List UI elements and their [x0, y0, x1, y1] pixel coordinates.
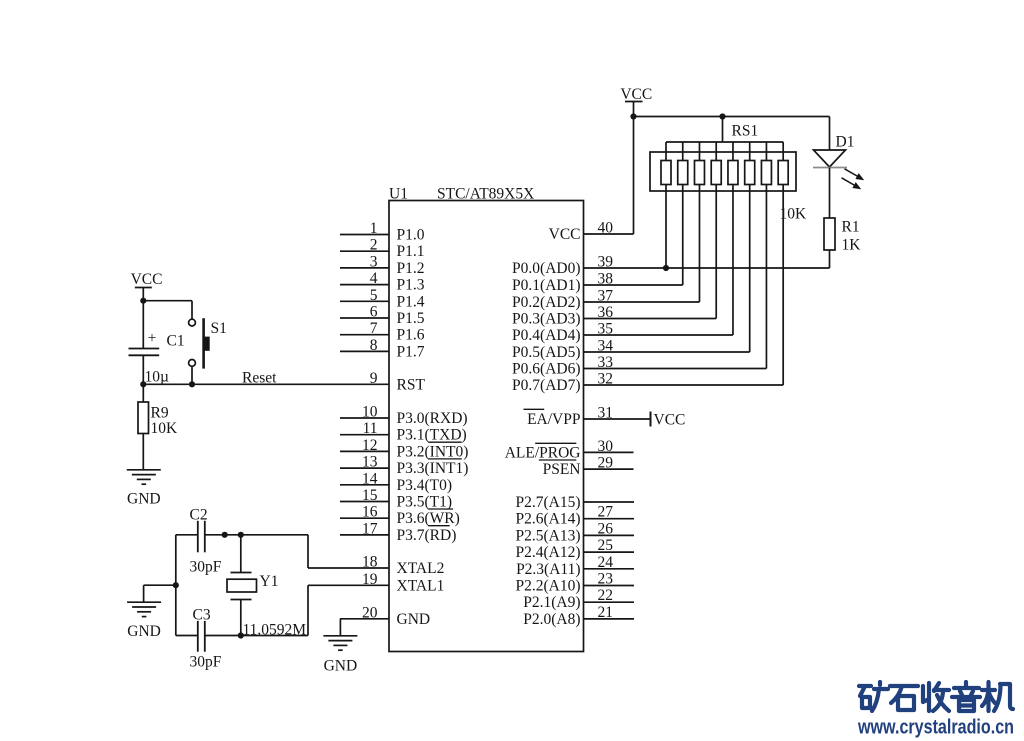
node junction top net A — [222, 532, 228, 538]
RS1 element 6 bottom lead wire — [749, 185, 751, 353]
resistor RS1 element 7 — [761, 161, 771, 185]
svg-text:10K: 10K — [151, 420, 179, 437]
svg-text:P2.6(A14): P2.6(A14) — [515, 511, 580, 528]
wire S1 bottom to reset net — [191, 366, 193, 384]
wire C1 to reset net — [142, 355, 144, 402]
svg-text:P2.4(A12): P2.4(A12) — [515, 544, 580, 561]
svg-text:C3: C3 — [193, 607, 211, 624]
svg-text:P0.6(AD6): P0.6(AD6) — [512, 361, 580, 378]
wire Y1 bottom lead — [240, 600, 242, 636]
svg-text:24: 24 — [598, 554, 614, 571]
svg-text:Y1: Y1 — [260, 573, 279, 590]
svg-text:D1: D1 — [836, 134, 855, 151]
svg-text:30pF: 30pF — [190, 654, 222, 671]
power VCC tick at pin 31 — [650, 412, 652, 427]
RS1 element 3 top lead — [698, 142, 700, 161]
svg-text:30: 30 — [598, 438, 614, 455]
svg-text:P0.1(AD1): P0.1(AD1) — [512, 277, 580, 294]
wire R1 to pin 39 net — [829, 250, 831, 268]
overline bar for P3.6 — [428, 508, 453, 510]
wire Y1 top lead — [240, 535, 242, 573]
svg-text:GND: GND — [397, 611, 431, 628]
overline bar for P3.3 — [428, 458, 462, 460]
resistor pack RS1 outline box — [650, 152, 796, 191]
resistor RS1 element 8 — [778, 161, 788, 185]
logo Chinese characters (kuang shi shou yin ji) — [859, 682, 1013, 711]
svg-text:18: 18 — [362, 554, 378, 571]
wire pin 20 vertical drop — [339, 619, 341, 636]
wire pin 9 RST / Reset net — [143, 383, 389, 385]
resistor R9 body — [138, 402, 149, 434]
wire pin 4 — [340, 284, 389, 286]
svg-text:P2.7(A15): P2.7(A15) — [515, 494, 580, 511]
ground symbol at pin 20 — [323, 635, 357, 637]
wire crystal bottom net — [176, 635, 198, 637]
wire pin 16 — [340, 517, 389, 519]
RS1 element 2 top lead — [682, 142, 684, 161]
svg-text:11.0592M: 11.0592M — [243, 622, 307, 639]
node junction VCC / RS1 common — [719, 113, 725, 119]
svg-text:VCC: VCC — [549, 226, 581, 243]
ground symbol below R9 — [127, 469, 161, 471]
node junction crystal gnd branch — [173, 582, 179, 588]
svg-text:P0.5(AD5): P0.5(AD5) — [512, 344, 580, 361]
switch S1 top contact — [189, 319, 196, 326]
svg-text:39: 39 — [598, 254, 614, 271]
wire pin 14 — [340, 484, 389, 486]
wire pin 15 — [340, 501, 389, 503]
svg-text:VCC: VCC — [620, 86, 652, 103]
svg-text:P0.7(AD7): P0.7(AD7) — [512, 377, 580, 394]
node junction pin39 / RS1 leg 1 — [663, 265, 669, 271]
LED D1 cathode bar — [813, 167, 847, 169]
svg-text:36: 36 — [598, 304, 614, 321]
wire pin 37 — [584, 301, 700, 303]
wire pin 39 — [584, 267, 830, 269]
wire to XTAL1 pin 19 — [307, 585, 309, 635]
svg-text:P3.1(TXD): P3.1(TXD) — [397, 427, 467, 444]
svg-text:P3.7(RD): P3.7(RD) — [397, 527, 457, 544]
LED D1 triangle — [814, 150, 846, 167]
wire pin 40 vertical to VCC rail — [633, 117, 635, 235]
svg-text:3: 3 — [370, 253, 378, 270]
crystal Y1 body — [227, 579, 257, 592]
wire crystal left vertical — [175, 535, 177, 636]
svg-text:P2.0(A8): P2.0(A8) — [523, 611, 580, 628]
wire crystal to ground — [144, 584, 176, 586]
overline bar for P3.2 — [428, 441, 462, 443]
svg-text:www.crystalradio.cn: www.crystalradio.cn — [857, 716, 1014, 739]
wire pin 7 — [340, 334, 389, 336]
svg-text:1K: 1K — [842, 237, 862, 254]
svg-text:P0.2(AD2): P0.2(AD2) — [512, 294, 580, 311]
svg-text:P3.6(WR): P3.6(WR) — [397, 510, 460, 527]
svg-text:C1: C1 — [167, 333, 185, 350]
switch S1 button — [204, 337, 210, 351]
svg-text:11: 11 — [363, 420, 378, 437]
svg-text:20: 20 — [362, 604, 378, 621]
svg-text:P3.4(T0): P3.4(T0) — [397, 477, 453, 494]
resistor R1 body — [824, 218, 835, 250]
svg-text:P2.3(A11): P2.3(A11) — [516, 561, 580, 578]
wire pin 34 — [584, 351, 750, 353]
wire pin 36 — [584, 318, 717, 320]
svg-text:33: 33 — [598, 354, 614, 371]
resistor RS1 element 6 — [745, 161, 755, 185]
svg-text:23: 23 — [598, 571, 614, 588]
svg-text:P1.7: P1.7 — [397, 343, 425, 360]
svg-text:RST: RST — [397, 376, 426, 393]
wire pin P2.2 — [584, 585, 635, 587]
resistor RS1 element 5 — [728, 161, 738, 185]
capacitor C2 left plate — [197, 521, 199, 553]
wire crystal top net — [176, 534, 198, 536]
svg-text:25: 25 — [598, 537, 614, 554]
node junction VCC / pin40 — [630, 113, 636, 119]
node junction Y1 top — [238, 532, 244, 538]
svg-text:32: 32 — [598, 371, 614, 388]
svg-text:4: 4 — [370, 270, 378, 287]
wire VCC rail horizontal — [633, 102, 635, 117]
svg-text:P3.5(T1): P3.5(T1) — [397, 494, 453, 511]
svg-text:5: 5 — [370, 287, 378, 304]
wire pin 12 — [340, 450, 389, 452]
wire pin P2.5 — [584, 534, 635, 536]
svg-text:12: 12 — [362, 437, 378, 454]
capacitor C3 right plate — [204, 621, 206, 652]
svg-text:GND: GND — [324, 657, 358, 674]
svg-text:P2.1(A9): P2.1(A9) — [523, 594, 580, 611]
RS1 element 7 bottom lead wire — [765, 185, 767, 369]
svg-text:S1: S1 — [211, 320, 227, 337]
RS1 element 7 top lead — [765, 142, 767, 161]
RS1 element 4 bottom lead wire — [715, 185, 717, 319]
svg-text:7: 7 — [370, 320, 378, 337]
wire pin 8 — [340, 350, 389, 352]
RS1 element 8 bottom lead wire — [782, 185, 784, 386]
wire pin 17 — [340, 534, 389, 536]
wire pin P2.7 — [584, 501, 635, 503]
wire to XTAL2 pin 18 — [307, 535, 309, 568]
wire pin 20 — [340, 618, 389, 620]
svg-text:P3.2(INT0): P3.2(INT0) — [397, 443, 469, 460]
wire pin 33 — [584, 368, 767, 370]
svg-text:2: 2 — [370, 237, 378, 254]
svg-text:31: 31 — [598, 405, 614, 422]
wire pin 29 — [584, 468, 634, 470]
svg-text:+: + — [148, 330, 157, 347]
LED D1 light arrow 2 — [842, 178, 860, 188]
svg-text:P2.2(A10): P2.2(A10) — [515, 578, 580, 595]
wire pin 13 — [340, 467, 389, 469]
svg-text:30pF: 30pF — [190, 559, 222, 576]
svg-text:R1: R1 — [842, 219, 860, 236]
svg-text:Reset: Reset — [242, 370, 277, 387]
svg-text:29: 29 — [598, 455, 614, 472]
wire pin P2.3 — [584, 568, 635, 570]
RS1 element 4 top lead — [715, 142, 717, 161]
svg-text:STC/AT89X5X: STC/AT89X5X — [437, 186, 534, 203]
svg-text:VCC: VCC — [131, 271, 163, 288]
RS1 element 8 top lead — [782, 142, 784, 161]
wire pin 3 — [340, 267, 389, 269]
resistor RS1 element 3 — [694, 161, 704, 185]
svg-text:GND: GND — [127, 491, 161, 508]
svg-text:P3.3(INT1): P3.3(INT1) — [397, 460, 469, 477]
svg-text:P0.4(AD4): P0.4(AD4) — [512, 327, 580, 344]
resistor RS1 element 4 — [711, 161, 721, 185]
resistor network RS1 common stub — [722, 117, 724, 143]
RS1 element 5 bottom lead wire — [732, 185, 734, 336]
svg-text:VCC: VCC — [654, 412, 686, 429]
svg-text:P2.5(A13): P2.5(A13) — [515, 527, 580, 544]
overline bar for EA — [524, 408, 545, 410]
capacitor C3 left plate — [197, 621, 199, 652]
wire pin 1 — [340, 234, 389, 236]
RS1 element 3 bottom lead wire — [698, 185, 700, 303]
resistor RS1 element 1 — [661, 161, 671, 185]
node junction VCC / S1 branch — [140, 298, 146, 304]
capacitor C1 top plate — [129, 348, 160, 350]
wire pin 10 — [340, 417, 389, 419]
svg-text:13: 13 — [362, 454, 378, 471]
svg-text:9: 9 — [370, 370, 378, 387]
op-amp U1 IC body STC/AT89X5X — [389, 201, 584, 652]
svg-text:16: 16 — [362, 504, 378, 521]
svg-text:15: 15 — [362, 487, 378, 504]
svg-text:34: 34 — [598, 338, 614, 355]
wire pin 18 XTAL2 — [308, 567, 389, 569]
wire R9 to ground — [142, 434, 144, 470]
svg-text:27: 27 — [598, 504, 614, 521]
wire RS1 common bus — [666, 141, 783, 143]
wire pin 38 — [584, 284, 683, 286]
RS1 element 1 top lead — [665, 142, 667, 161]
svg-text:8: 8 — [370, 337, 378, 354]
svg-text:10K: 10K — [780, 206, 808, 223]
svg-text:R9: R9 — [151, 405, 169, 422]
RS1 element 1 bottom lead wire — [665, 185, 667, 269]
svg-text:19: 19 — [362, 571, 378, 588]
svg-text:40: 40 — [598, 220, 614, 237]
wire pin 32 — [584, 384, 784, 386]
svg-text:P1.2: P1.2 — [397, 260, 425, 277]
svg-text:37: 37 — [598, 288, 614, 305]
RS1 element 5 top lead — [732, 142, 734, 161]
wire pin 2 — [340, 250, 389, 252]
svg-text:P0.0(AD0): P0.0(AD0) — [512, 260, 580, 277]
svg-text:22: 22 — [598, 587, 614, 604]
wire pin 40 VCC — [584, 233, 634, 235]
svg-text:P0.3(AD3): P0.3(AD3) — [512, 311, 580, 328]
overline bar for P3.7 — [428, 525, 450, 527]
svg-text:C2: C2 — [190, 507, 208, 524]
svg-text:10µ: 10µ — [145, 369, 170, 386]
svg-text:P1.3: P1.3 — [397, 277, 425, 294]
resistor RS1 element 2 — [678, 161, 688, 185]
svg-text:P3.0(RXD): P3.0(RXD) — [397, 410, 468, 427]
svg-text:P1.0: P1.0 — [397, 227, 425, 244]
wire VCC down to junction — [142, 288, 144, 349]
wire pin 31 — [584, 418, 651, 420]
svg-text:RS1: RS1 — [732, 123, 759, 140]
capacitor C1 bottom plate — [129, 354, 160, 356]
wire pin P2.0 — [584, 618, 635, 620]
svg-text:17: 17 — [362, 520, 378, 537]
RS1 element 2 bottom lead wire — [682, 185, 684, 286]
crystal Y1 top plate — [231, 572, 252, 574]
wire pin P2.4 — [584, 551, 635, 553]
wire pin 19 XTAL1 — [308, 584, 389, 586]
overline bar for PROG — [535, 442, 576, 444]
wire pin P2.1 — [584, 601, 635, 603]
overline bar for PSEN — [539, 459, 577, 461]
svg-text:ALE/PROG: ALE/PROG — [505, 444, 581, 461]
svg-text:21: 21 — [598, 604, 614, 621]
svg-text:10: 10 — [362, 404, 378, 421]
svg-text:GND: GND — [127, 623, 161, 640]
svg-text:PSEN: PSEN — [543, 461, 581, 478]
svg-text:P1.5: P1.5 — [397, 310, 425, 327]
svg-text:EA/VPP: EA/VPP — [527, 411, 580, 428]
svg-text:6: 6 — [370, 304, 378, 321]
capacitor C2 right plate — [204, 521, 206, 553]
svg-text:35: 35 — [598, 321, 614, 338]
svg-text:P1.6: P1.6 — [397, 327, 425, 344]
wire pin 6 — [340, 317, 389, 319]
wire pin 35 — [584, 334, 733, 336]
svg-text:14: 14 — [362, 470, 378, 487]
switch S1 actuator bar — [202, 318, 205, 368]
wire branch to switch S1 — [143, 300, 192, 302]
wire VCC rail to D1 — [829, 117, 831, 151]
wire pin 5 — [340, 300, 389, 302]
svg-text:U1: U1 — [389, 186, 408, 203]
svg-text:XTAL2: XTAL2 — [397, 560, 445, 577]
wire pin 30 — [584, 451, 634, 453]
node junction C1 / reset net — [140, 381, 146, 387]
svg-text:P1.1: P1.1 — [397, 243, 425, 260]
svg-text:P1.4: P1.4 — [397, 293, 425, 310]
svg-text:XTAL1: XTAL1 — [397, 577, 445, 594]
RS1 element 6 top lead — [749, 142, 751, 161]
node junction Y1 bottom — [238, 632, 244, 638]
node junction S1 / reset net — [189, 381, 195, 387]
wire pin P2.6 — [584, 518, 635, 520]
crystal Y1 bottom plate — [231, 599, 252, 601]
svg-text:26: 26 — [598, 520, 614, 537]
LED D1 light arrow 1 — [845, 169, 863, 179]
wire D1 cathode to R1 — [829, 168, 831, 219]
ground symbol crystal — [127, 601, 161, 603]
svg-text:38: 38 — [598, 271, 614, 288]
switch S1 bottom contact — [189, 360, 196, 367]
svg-text:1: 1 — [370, 220, 378, 237]
wire pin 11 — [340, 434, 389, 436]
